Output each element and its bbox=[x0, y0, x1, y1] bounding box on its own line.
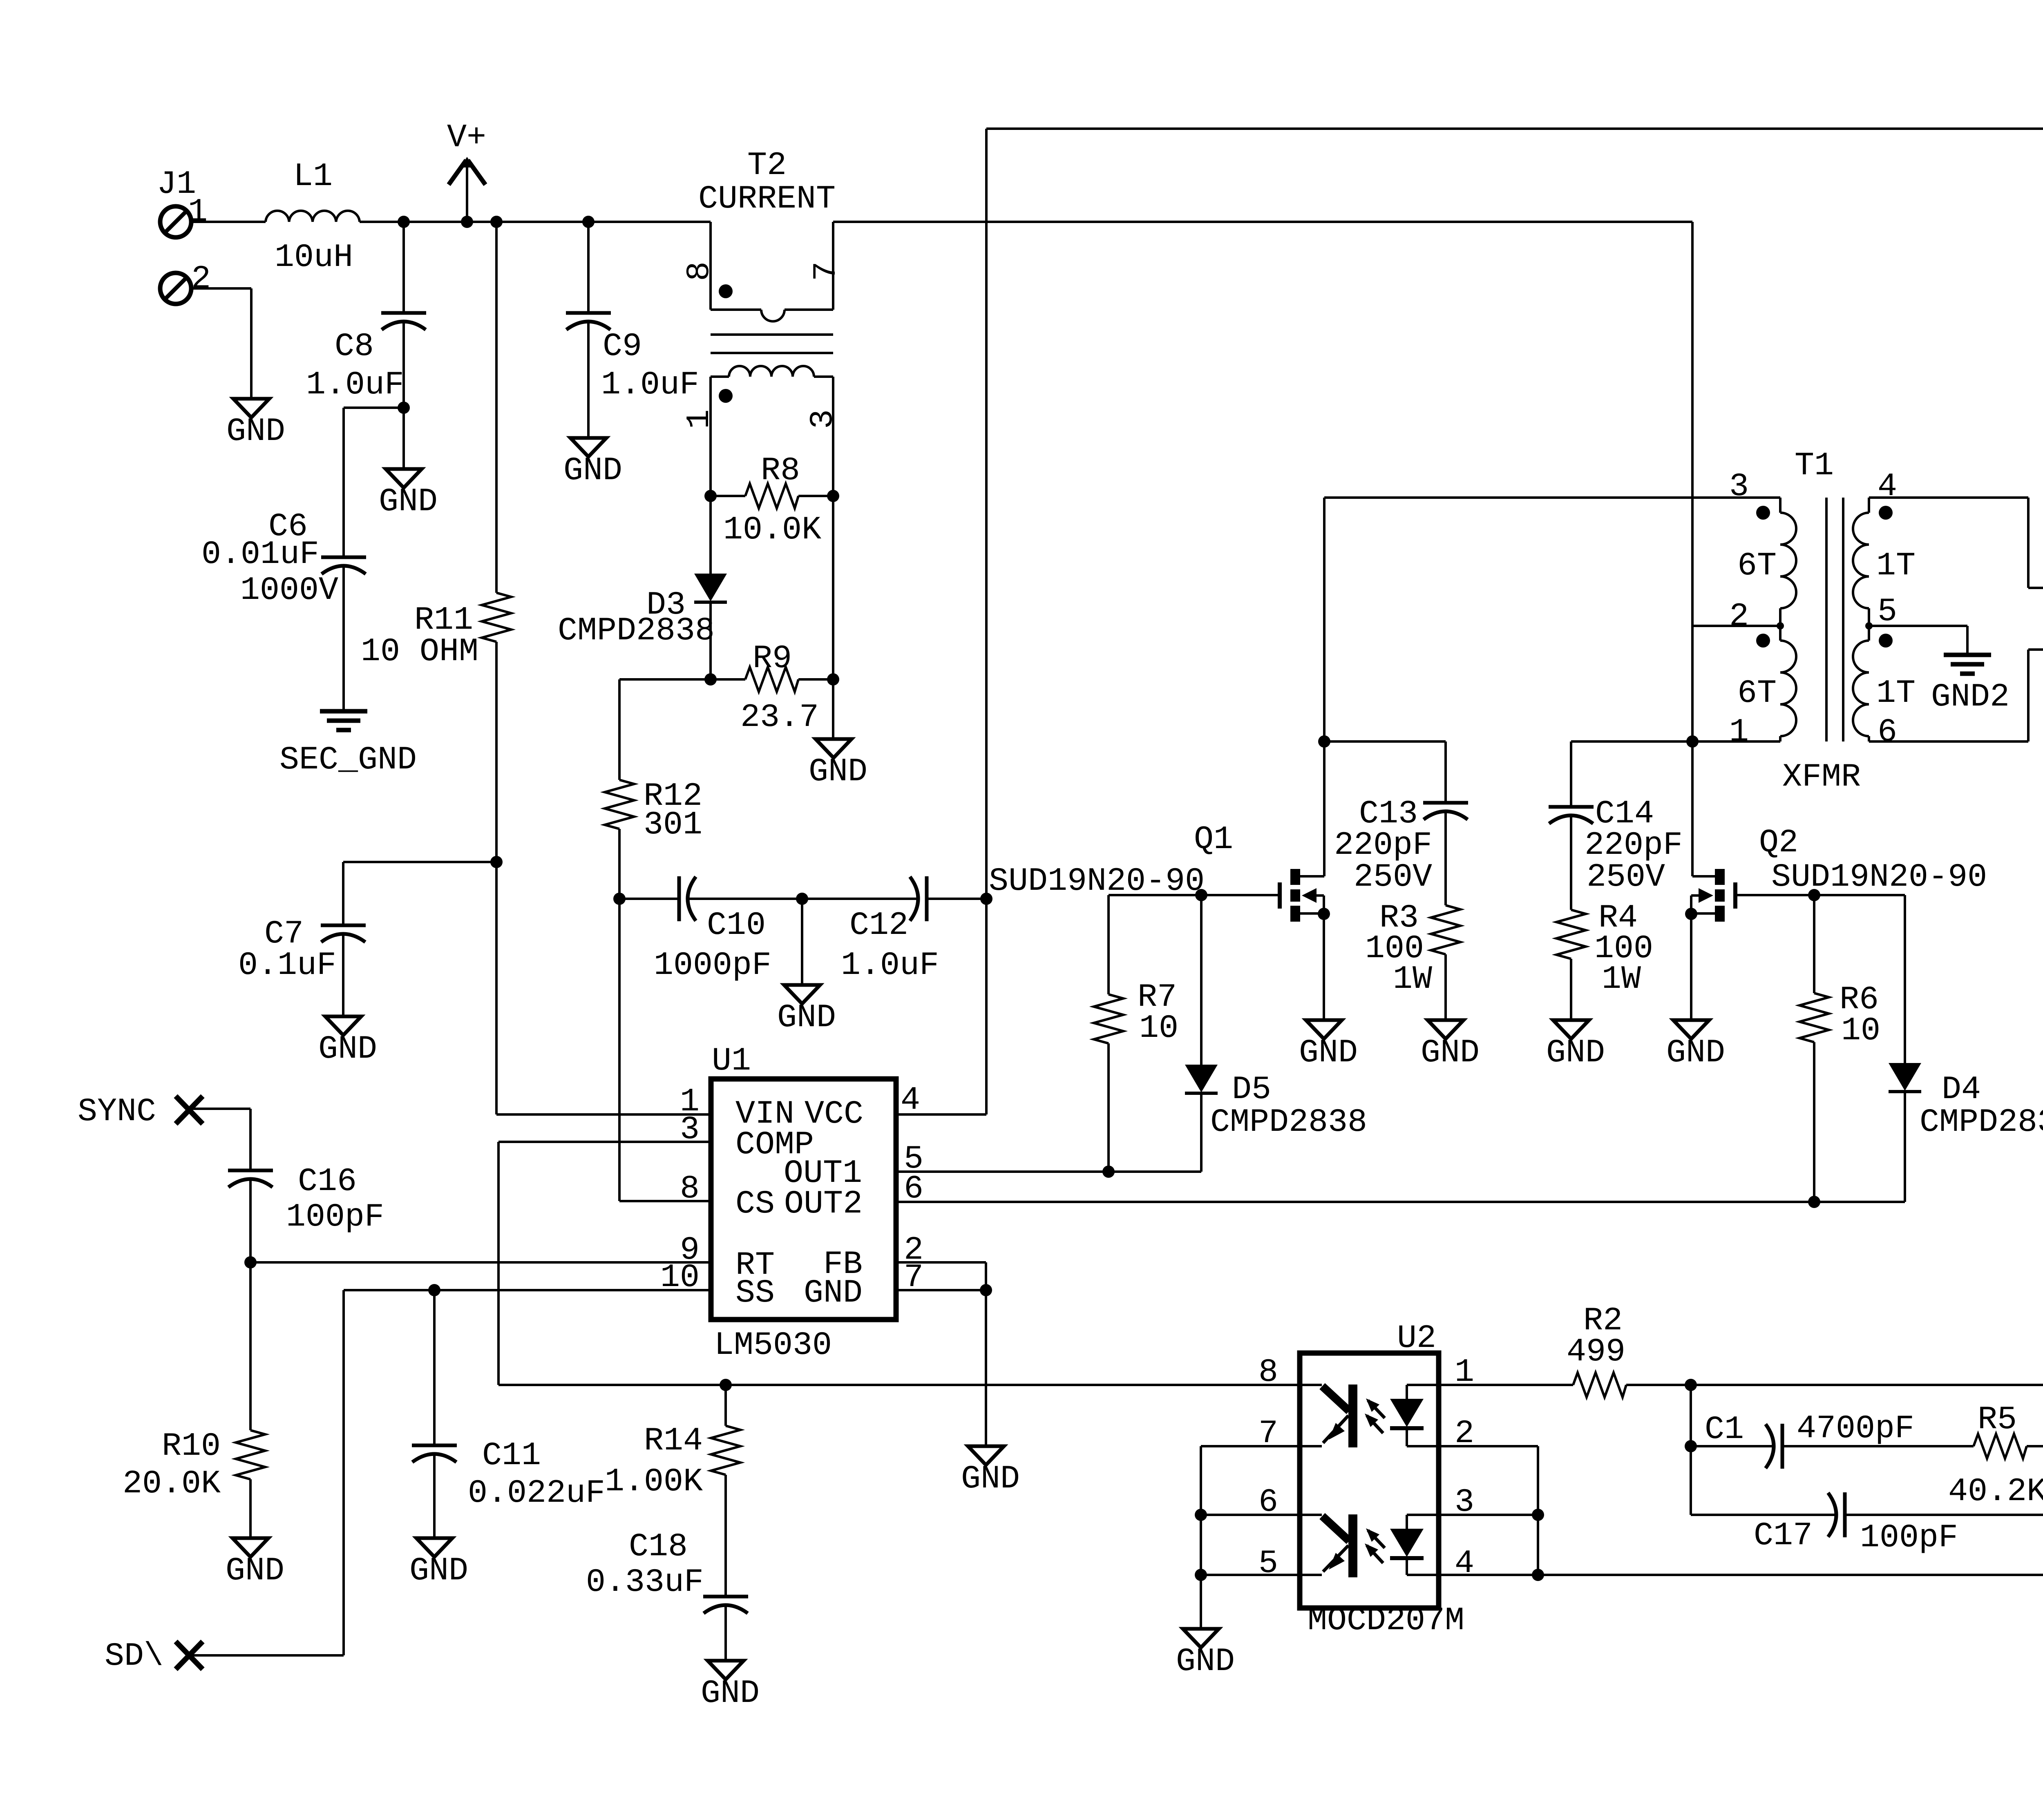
wire bbox=[801, 899, 803, 985]
net label SD\ bbox=[105, 1638, 163, 1675]
phase dot bbox=[1879, 634, 1893, 648]
pin number 3 bbox=[1455, 1484, 1474, 1521]
svg-text:GND: GND bbox=[1299, 1034, 1358, 1072]
svg-text:GND: GND bbox=[961, 1460, 1020, 1498]
ground bbox=[809, 739, 867, 791]
label LM5030 bbox=[714, 1327, 832, 1364]
wire bbox=[249, 1479, 252, 1538]
svg-text:1.0uF: 1.0uF bbox=[841, 947, 939, 984]
capacitor C13 bbox=[1334, 795, 1468, 896]
wire bbox=[587, 340, 590, 438]
svg-text:1T: 1T bbox=[1876, 547, 1916, 585]
svg-text:10uH: 10uH bbox=[275, 239, 353, 276]
pin number 7 bbox=[1258, 1415, 1278, 1452]
diode D4 bbox=[1889, 1063, 2043, 1141]
wire bbox=[1626, 1384, 2043, 1386]
wire T1 pin1 bbox=[1692, 740, 1780, 743]
transformer T2 core bbox=[711, 335, 833, 353]
wire bbox=[833, 221, 1692, 223]
wire bbox=[709, 602, 712, 679]
capacitor C12 bbox=[841, 876, 939, 984]
wire T1 pin3 bbox=[1324, 498, 1780, 741]
node bbox=[720, 1379, 732, 1391]
wire bbox=[802, 898, 918, 900]
wire bbox=[191, 221, 266, 223]
wire bbox=[402, 222, 405, 313]
svg-text:20.0K: 20.0K bbox=[123, 1465, 221, 1503]
ground bbox=[226, 1538, 284, 1590]
ground bbox=[1546, 1020, 1605, 1072]
pin number 6 bbox=[1258, 1484, 1278, 1521]
wire bbox=[724, 1623, 727, 1661]
wire bbox=[1782, 1445, 1974, 1447]
pin number 10 bbox=[660, 1259, 700, 1296]
svg-text:XFMR: XFMR bbox=[1782, 759, 1861, 796]
pin number 4 bbox=[901, 1082, 920, 1119]
svg-text:C1: C1 bbox=[1705, 1411, 1744, 1448]
pin number 6 bbox=[904, 1170, 923, 1208]
pin number 2 bbox=[1455, 1415, 1474, 1452]
capacitor C8 bbox=[306, 313, 426, 404]
net label SYNC bbox=[78, 1093, 156, 1130]
pin number 2 bbox=[1729, 598, 1749, 635]
wire bbox=[433, 1472, 436, 1538]
connector J1 pin 1 bbox=[160, 194, 208, 237]
svg-text:C12: C12 bbox=[849, 907, 908, 944]
wire OUT2 bbox=[896, 1201, 1905, 1203]
pin text COMP bbox=[735, 1126, 814, 1163]
svg-text:0.022uF: 0.022uF bbox=[468, 1475, 605, 1512]
wire bbox=[618, 829, 621, 899]
svg-text:1: 1 bbox=[188, 194, 208, 231]
wire bbox=[1200, 1093, 1203, 1172]
wire bbox=[1691, 1445, 1774, 1447]
pin number 4 bbox=[1878, 468, 1897, 505]
pin text SS bbox=[735, 1275, 775, 1312]
svg-text:CMPD2838: CMPD2838 bbox=[1920, 1104, 2043, 1141]
svg-text:GND: GND bbox=[804, 1275, 863, 1312]
transformer T1 label bbox=[1782, 447, 1861, 796]
wire bbox=[343, 862, 496, 925]
svg-text:SEC_GND: SEC_GND bbox=[279, 741, 417, 779]
transformer T1 primary top bbox=[1780, 498, 1796, 626]
svg-text:4700pF: 4700pF bbox=[1797, 1410, 1914, 1447]
svg-text:1: 1 bbox=[681, 409, 718, 429]
wire bbox=[1691, 222, 1694, 876]
svg-text:100pF: 100pF bbox=[1860, 1519, 1958, 1556]
wire CS bbox=[619, 899, 711, 1201]
wire bbox=[495, 642, 498, 1114]
svg-text:SUD19N20-90: SUD19N20-90 bbox=[989, 863, 1205, 900]
node bbox=[1318, 908, 1330, 920]
node bbox=[980, 893, 992, 905]
svg-text:5: 5 bbox=[1258, 1545, 1278, 1582]
svg-text:1: 1 bbox=[1729, 714, 1749, 751]
wire bbox=[495, 222, 498, 593]
wire bbox=[724, 1475, 727, 1597]
wire T1 pin4 bbox=[1869, 498, 2043, 588]
ground SEC_GND bbox=[279, 711, 417, 779]
svg-text:8: 8 bbox=[1258, 1354, 1278, 1391]
svg-text:R8: R8 bbox=[761, 452, 800, 489]
ground bbox=[1176, 1629, 1235, 1680]
svg-text:MOCD207M: MOCD207M bbox=[1308, 1602, 1464, 1639]
svg-text:CMPD2838: CMPD2838 bbox=[1210, 1104, 1367, 1141]
svg-text:GND: GND bbox=[318, 1031, 377, 1068]
no-connect X bbox=[176, 1096, 203, 1124]
wire bbox=[619, 679, 711, 780]
transformer T2 phase dot pin1 bbox=[681, 389, 733, 429]
svg-text:10: 10 bbox=[1139, 1010, 1178, 1047]
resistor R9 bbox=[711, 640, 833, 736]
wire bbox=[191, 288, 251, 399]
wire bbox=[1200, 895, 1203, 1065]
wire bbox=[1324, 741, 1446, 803]
phase dot bbox=[1756, 506, 1770, 520]
svg-text:GND: GND bbox=[1546, 1034, 1605, 1072]
wire bbox=[1845, 1446, 2043, 1515]
pin number 7 bbox=[904, 1259, 923, 1296]
node bbox=[1102, 1166, 1115, 1178]
svg-text:V+: V+ bbox=[447, 119, 486, 156]
svg-text:8: 8 bbox=[680, 1170, 700, 1208]
svg-text:T1: T1 bbox=[1795, 447, 1834, 485]
phase dot bbox=[1756, 634, 1770, 648]
svg-text:SS: SS bbox=[735, 1275, 775, 1312]
svg-text:Q1: Q1 bbox=[1194, 821, 1233, 858]
svg-text:100pF: 100pF bbox=[286, 1199, 384, 1236]
wire T1 pin2 bbox=[1692, 625, 1780, 627]
svg-text:GND: GND bbox=[1666, 1034, 1725, 1072]
wire bbox=[1571, 741, 1692, 807]
wire bbox=[360, 221, 711, 223]
label Q1 bbox=[989, 821, 1233, 900]
wire bbox=[1407, 1514, 1439, 1516]
wire bbox=[496, 1113, 711, 1116]
diode D5 bbox=[1185, 1065, 1367, 1141]
wire bbox=[1570, 834, 1572, 910]
resistor R4 bbox=[1556, 900, 1653, 998]
wire bbox=[1201, 1514, 1300, 1516]
pin text OUT2 bbox=[784, 1186, 863, 1223]
svg-text:2: 2 bbox=[191, 261, 211, 298]
pin number 5 bbox=[1258, 1545, 1278, 1582]
ground bbox=[1666, 1020, 1725, 1072]
svg-text:1000V: 1000V bbox=[240, 572, 338, 609]
svg-text:L1: L1 bbox=[293, 158, 333, 195]
IC U2 box bbox=[1300, 1353, 1439, 1608]
node bbox=[398, 216, 410, 228]
svg-text:4: 4 bbox=[1455, 1545, 1474, 1582]
svg-text:CURRENT: CURRENT bbox=[698, 181, 836, 218]
node bbox=[827, 673, 839, 686]
pin number 3 bbox=[1729, 468, 1749, 505]
ground bbox=[563, 438, 622, 489]
svg-text:1.00K: 1.00K bbox=[605, 1463, 703, 1501]
svg-text:3: 3 bbox=[1729, 468, 1749, 505]
node bbox=[704, 673, 717, 686]
svg-text:10: 10 bbox=[1841, 1012, 1880, 1050]
wire bbox=[1200, 1446, 1202, 1629]
wire bbox=[249, 1197, 252, 1262]
pin number 3 bbox=[680, 1111, 700, 1148]
node bbox=[1808, 1196, 1820, 1208]
capacitor C14 bbox=[1549, 795, 1683, 896]
ground GND2 bbox=[1931, 655, 2009, 716]
wire VCC bbox=[896, 129, 2043, 1114]
ground bbox=[318, 1016, 377, 1068]
svg-text:7: 7 bbox=[808, 261, 845, 281]
transistor Q1 bbox=[1280, 869, 1324, 922]
node bbox=[1195, 1509, 1207, 1521]
ground bbox=[379, 469, 438, 520]
svg-text:499: 499 bbox=[1567, 1333, 1625, 1371]
transformer T2 phase dot pin8 bbox=[681, 261, 733, 298]
svg-text:C16: C16 bbox=[298, 1163, 357, 1200]
svg-text:CMPD2838: CMPD2838 bbox=[558, 612, 715, 650]
wire bbox=[342, 952, 344, 1016]
svg-text:1000pF: 1000pF bbox=[654, 947, 771, 984]
label T2 pin 7 bbox=[808, 261, 845, 281]
svg-text:SD\: SD\ bbox=[105, 1638, 163, 1675]
ground bbox=[777, 985, 836, 1036]
wire bbox=[1813, 1042, 1815, 1202]
wire bbox=[1570, 959, 1572, 1020]
svg-text:GND: GND bbox=[777, 999, 836, 1036]
wire bbox=[1444, 954, 1447, 1020]
resistor R2 bbox=[1567, 1302, 1626, 1397]
svg-text:4: 4 bbox=[1878, 468, 1897, 505]
svg-text:1W: 1W bbox=[1393, 961, 1432, 998]
wire bbox=[1439, 1514, 1538, 1516]
pin number 5 bbox=[1878, 593, 1897, 630]
svg-text:GND: GND bbox=[701, 1675, 760, 1712]
transformer T1 secondary top bbox=[1853, 498, 1869, 626]
wire T1 pin6 bbox=[1869, 650, 2043, 741]
transformer T2 label bbox=[698, 147, 836, 218]
label L1 value bbox=[275, 158, 353, 276]
label U1 bbox=[712, 1043, 751, 1080]
wire bbox=[688, 898, 802, 900]
svg-text:Q2: Q2 bbox=[1759, 824, 1798, 862]
node bbox=[980, 1284, 992, 1296]
wire bbox=[189, 1109, 250, 1170]
svg-text:301: 301 bbox=[644, 806, 702, 844]
wire bbox=[344, 408, 404, 557]
transformer T2 primary bbox=[711, 222, 833, 322]
wire bbox=[1444, 830, 1447, 905]
label T2 pin 3 bbox=[805, 409, 842, 429]
optocoupler U2 channel 1 bbox=[1300, 1385, 1424, 1447]
pin number 4 bbox=[1455, 1545, 1474, 1582]
diode D3 bbox=[558, 574, 727, 650]
svg-text:1.0uF: 1.0uF bbox=[601, 366, 699, 404]
svg-text:10 OHM: 10 OHM bbox=[361, 633, 478, 670]
wire bbox=[927, 898, 986, 900]
svg-text:OUT2: OUT2 bbox=[784, 1186, 863, 1223]
wire RT bbox=[250, 1261, 711, 1264]
svg-text:GND: GND bbox=[1176, 1643, 1235, 1680]
wire bbox=[1439, 1384, 1573, 1386]
wire bbox=[1904, 895, 1906, 1063]
svg-text:T2: T2 bbox=[747, 147, 787, 184]
power V+ bbox=[447, 119, 486, 222]
wire bbox=[433, 1290, 436, 1445]
wire FB bbox=[896, 1262, 986, 1446]
label Q2 bbox=[1759, 824, 1987, 896]
pin text OUT1 bbox=[784, 1155, 862, 1192]
pin number 1 bbox=[1729, 714, 1749, 751]
wire bbox=[1407, 1384, 1439, 1386]
wire bbox=[1407, 1445, 1439, 1447]
wire bbox=[1690, 1385, 1692, 1515]
svg-text:D4: D4 bbox=[1942, 1071, 1981, 1108]
capacitor C7 bbox=[238, 916, 366, 984]
ground bbox=[409, 1538, 468, 1590]
svg-text:6T: 6T bbox=[1737, 675, 1777, 712]
pin text CS bbox=[735, 1186, 775, 1223]
wire OUT1 bbox=[896, 1170, 1201, 1173]
node bbox=[1195, 889, 1207, 901]
no-connect X bbox=[176, 1641, 203, 1669]
wire bbox=[1439, 1446, 1538, 1575]
capacitor C17 bbox=[1754, 1492, 1958, 1556]
node bbox=[1686, 735, 1699, 748]
pin text RT bbox=[735, 1247, 775, 1284]
svg-text:3: 3 bbox=[805, 409, 842, 429]
node bbox=[428, 1284, 440, 1296]
node bbox=[398, 402, 410, 414]
label MOCD207M bbox=[1308, 1602, 1464, 1639]
pin number 8 bbox=[680, 1170, 700, 1208]
wire COMP bbox=[498, 1142, 711, 1385]
node bbox=[582, 216, 595, 228]
capacitor C1 bbox=[1705, 1410, 1914, 1469]
wire bbox=[709, 496, 712, 574]
capacitor C11 bbox=[412, 1437, 605, 1512]
node bbox=[827, 490, 839, 502]
node bbox=[613, 893, 626, 905]
svg-text:40.2K: 40.2K bbox=[1948, 1473, 2043, 1510]
svg-text:C10: C10 bbox=[707, 907, 766, 944]
label 1T bbox=[1876, 547, 1916, 585]
node bbox=[1685, 1379, 1697, 1391]
wire bbox=[1323, 741, 1325, 876]
transistor Q2 bbox=[1691, 869, 1735, 922]
label U2 bbox=[1397, 1320, 1436, 1357]
svg-text:10.0K: 10.0K bbox=[723, 511, 821, 549]
wire GND pin7 bbox=[896, 1289, 986, 1291]
pin number 9 bbox=[680, 1232, 700, 1269]
node bbox=[1685, 908, 1697, 920]
node bbox=[796, 893, 808, 905]
wire bbox=[1201, 1574, 1300, 1576]
node bbox=[490, 216, 503, 228]
capacitor C10 bbox=[654, 876, 771, 984]
capacitor C18 bbox=[586, 1528, 748, 1626]
svg-text:GND: GND bbox=[226, 1552, 284, 1590]
svg-text:6T: 6T bbox=[1737, 547, 1777, 585]
capacitor C16 bbox=[228, 1163, 384, 1236]
wire bbox=[498, 1384, 1299, 1386]
node bbox=[1532, 1509, 1544, 1521]
svg-text:C11: C11 bbox=[482, 1437, 541, 1474]
capacitor C9 bbox=[566, 313, 699, 404]
svg-text:R14: R14 bbox=[644, 1423, 703, 1460]
wire bbox=[1201, 1445, 1300, 1447]
svg-text:C8: C8 bbox=[335, 328, 374, 365]
svg-text:1.0uF: 1.0uF bbox=[306, 366, 404, 404]
wire bbox=[1323, 914, 1325, 1020]
connector J1 pin 2 bbox=[160, 261, 211, 304]
optocoupler U2 channel 2 bbox=[1300, 1514, 1424, 1577]
wire bbox=[2027, 1445, 2043, 1447]
pin number 5 bbox=[904, 1141, 923, 1178]
svg-text:2: 2 bbox=[1729, 598, 1749, 635]
transformer T1 primary bottom bbox=[1780, 626, 1796, 741]
svg-text:6: 6 bbox=[1878, 714, 1897, 751]
ground bbox=[226, 399, 285, 450]
svg-text:0.33uF: 0.33uF bbox=[586, 1564, 704, 1601]
svg-text:1W: 1W bbox=[1602, 961, 1641, 998]
wire T1 pin5 bbox=[1869, 626, 1967, 655]
svg-text:C17: C17 bbox=[1754, 1517, 1813, 1554]
label 6T bbox=[1737, 547, 1777, 585]
wire bbox=[1439, 1574, 1538, 1576]
ground bbox=[701, 1661, 760, 1712]
pin number 1 bbox=[680, 1083, 700, 1121]
inductor L1 bbox=[266, 211, 360, 222]
pin number 1 bbox=[1455, 1354, 1474, 1391]
IC U1 box bbox=[711, 1079, 896, 1320]
svg-text:GND: GND bbox=[409, 1552, 468, 1590]
svg-text:C9: C9 bbox=[603, 328, 642, 365]
svg-text:0.1uF: 0.1uF bbox=[238, 947, 336, 984]
transformer T2 secondary bbox=[711, 366, 833, 496]
capacitor C6 bbox=[201, 508, 366, 609]
wire gate Q2 bbox=[1735, 894, 1905, 896]
svg-text:1T: 1T bbox=[1876, 675, 1916, 712]
svg-text:GND: GND bbox=[809, 753, 867, 791]
svg-text:R9: R9 bbox=[753, 640, 792, 677]
svg-text:CS: CS bbox=[735, 1186, 775, 1223]
resistor R8 bbox=[711, 452, 833, 549]
node bbox=[1808, 889, 1820, 901]
node bbox=[704, 490, 717, 502]
wire bbox=[832, 496, 834, 679]
svg-text:GND: GND bbox=[1421, 1034, 1480, 1072]
svg-text:0.01uF: 0.01uF bbox=[201, 536, 319, 573]
node bbox=[1777, 622, 1784, 630]
resistor R3 bbox=[1365, 900, 1460, 998]
svg-text:D5: D5 bbox=[1232, 1071, 1271, 1108]
resistor R10 bbox=[123, 1428, 265, 1503]
ground bbox=[1421, 1020, 1480, 1072]
svg-text:C18: C18 bbox=[629, 1528, 688, 1565]
wire bbox=[342, 584, 345, 711]
node bbox=[1532, 1569, 1544, 1581]
pin number 2 bbox=[904, 1232, 923, 1269]
svg-text:250V: 250V bbox=[1587, 859, 1665, 896]
resistor R12 bbox=[605, 778, 702, 844]
node bbox=[1685, 1440, 1697, 1452]
pin text VIN bbox=[735, 1096, 794, 1133]
resistor R11 bbox=[361, 593, 511, 670]
svg-text:23.7: 23.7 bbox=[740, 699, 819, 736]
node bbox=[1318, 735, 1330, 748]
pin number 8 bbox=[1258, 1354, 1278, 1391]
wire bbox=[249, 1262, 252, 1430]
